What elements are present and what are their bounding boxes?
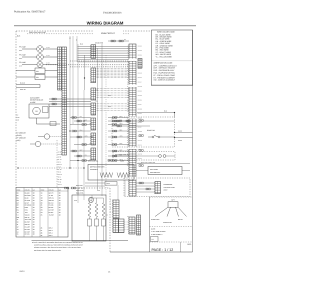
table divider 1 — [150, 226, 193, 228]
bottom connector strip S7 — [129, 217, 135, 234]
svg-text:ORN: ORN — [19, 58, 22, 60]
svg-text:GRY: GRY — [80, 149, 83, 151]
svg-text:41-40: 41-40 — [46, 55, 50, 57]
notes block — [32, 239, 129, 241]
svg-text:WH-16: WH-16 — [58, 174, 63, 176]
connector strip J2 seg2 — [91, 68, 96, 83]
svg-text:WH-14: WH-14 — [58, 184, 63, 186]
DB4 connector strip — [155, 182, 161, 194]
legend box wire color code — [152, 30, 193, 86]
svg-text:CMP: CMP — [17, 117, 20, 119]
water valve heater 3 — [102, 203, 105, 205]
connector strip J2 seg5 — [91, 118, 96, 130]
svg-text:BK-16: BK-16 — [58, 169, 62, 171]
water valve heater 2 — [95, 203, 98, 205]
svg-text:DSP WTR TUBE HTR: DSP WTR TUBE HTR — [141, 162, 155, 164]
connector strip J1 right column — [62, 47, 67, 155]
svg-text:GA: GA — [59, 189, 61, 191]
table divider 2 — [150, 241, 193, 243]
bottom connector block S6a — [113, 219, 119, 233]
svg-text:45-16: 45-16 — [58, 172, 62, 174]
icemaker wires — [49, 98, 91, 100]
svg-text:WHT: WHT — [19, 65, 22, 67]
svg-text:CN-35: CN-35 — [138, 122, 142, 124]
lamp B3 wires — [22, 64, 37, 66]
connector strip J2 seg6 — [91, 133, 96, 145]
svg-text:BRN: BRN — [120, 143, 123, 145]
svg-text:CN-21: CN-21 — [138, 90, 142, 92]
svg-text:CN-23: CN-23 — [138, 95, 142, 97]
svg-text:WIRE: WIRE — [17, 189, 21, 191]
connector strip J2 seg7 — [91, 148, 96, 160]
svg-text:CN-43: CN-43 — [138, 140, 142, 142]
svg-text:WIRE: WIRE — [41, 189, 45, 191]
svg-text:WIRE COLOR CODE: WIRE COLOR CODE — [157, 31, 175, 34]
ground wire dashed — [17, 167, 18, 168]
auger motor circle — [88, 197, 93, 202]
bottom connector block S6b — [119, 219, 125, 233]
svg-text:BLU: BLU — [95, 101, 98, 103]
cabinet dashed border top — [16, 30, 152, 32]
bottom dotted wires — [124, 221, 129, 223]
junction dots — [69, 130, 70, 131]
FZ sensor — [44, 134, 49, 139]
connector strip J2 seg1 — [91, 45, 96, 59]
svg-text:RED: RED — [80, 129, 83, 131]
svg-text:CN-51: CN-51 — [138, 158, 142, 160]
switch SW1 box — [35, 68, 45, 74]
heater bank box — [72, 195, 106, 241]
svg-text:FZ: FZ — [17, 115, 19, 117]
svg-text:CN-29: CN-29 — [138, 108, 142, 110]
compartment divider dashed — [56, 140, 58, 188]
svg-text:DUAL COIL: DUAL COIL — [76, 193, 84, 195]
svg-text:ABBREVIATION CODE: ABBREVIATION CODE — [154, 61, 174, 64]
svg-text:PWB CIRCUIT: PWB CIRCUIT — [101, 32, 115, 35]
bottom connector strip S8 — [137, 215, 141, 235]
svg-text:CN-33: CN-33 — [138, 117, 142, 119]
compressor pictorial box — [168, 202, 178, 207]
defrost lower wires — [85, 182, 105, 184]
cabinet dashed border bottom-left — [68, 187, 110, 189]
svg-text:ORN 120V 60HZ WHT: ORN 120V 60HZ WHT — [29, 31, 46, 34]
svg-text:VIO: VIO — [85, 154, 87, 156]
svg-text:CN-27: CN-27 — [138, 104, 142, 106]
table small box — [151, 237, 159, 242]
svg-text:M: M — [36, 110, 38, 113]
compressor pictorial lines — [155, 207, 168, 216]
FF sensor — [35, 141, 40, 146]
svg-text:WHT: WHT — [90, 123, 93, 125]
svg-text:CN-31: CN-31 — [138, 113, 142, 115]
svg-text:YEL: YEL — [80, 116, 83, 118]
DB1 wires and pairs — [112, 120, 175, 122]
svg-text:CN-37: CN-37 — [138, 126, 142, 128]
svg-text:SW - SWITCH ASSEMBLY: SW - SWITCH ASSEMBLY — [154, 79, 176, 82]
svg-text:REF:: REF: — [187, 243, 192, 246]
svg-text:CN-25: CN-25 — [138, 99, 142, 101]
lamp B2 wires — [22, 56, 37, 58]
water tube heater box DB3 — [148, 167, 182, 175]
door switch — [148, 136, 152, 138]
svg-text:CN-19: CN-19 — [138, 86, 142, 88]
svg-text:Publication No. 5995578917: Publication No. 5995578917 — [14, 10, 46, 13]
svg-text:CN-11: CN-11 — [138, 68, 142, 70]
svg-text:ORN: ORN — [19, 50, 22, 52]
svg-text:BK-08: BK-08 — [58, 179, 62, 181]
svg-text:COLOR: COLOR — [25, 189, 30, 191]
switch SW2 box — [35, 75, 45, 80]
svg-text:WTR: WTR — [74, 200, 77, 202]
door dashed box DB1 — [112, 117, 175, 147]
main board connector strip CN1 — [129, 44, 136, 196]
svg-text:GA: GA — [33, 189, 35, 191]
svg-text:46-12: 46-12 — [58, 177, 62, 179]
table left border — [149, 197, 151, 252]
heater bank feed wires — [77, 188, 79, 203]
svg-text:3-WAY VLV: 3-WAY VLV — [76, 188, 83, 190]
connector strip J2 seg4 — [91, 103, 96, 115]
svg-text:AIR: AIR — [17, 120, 19, 122]
wire stub B — [16, 87, 40, 89]
defrost heater element 2 — [117, 173, 119, 178]
svg-text:EW23BC85KS6A: EW23BC85KS6A — [103, 12, 122, 15]
svg-text:ORN: ORN — [85, 135, 88, 137]
svg-text:GRY: GRY — [120, 150, 123, 152]
DB1 wire right — [175, 132, 193, 134]
svg-text:43-12: 43-12 — [58, 162, 62, 164]
svg-text:CN-39: CN-39 — [138, 131, 142, 133]
svg-text:WH-08: WH-08 — [58, 154, 63, 156]
svg-text:CN-15: CN-15 — [138, 77, 142, 79]
defrost vertical wires — [117, 185, 119, 200]
connector strip J2 seg3 — [91, 88, 96, 100]
table top border — [150, 196, 193, 198]
svg-text:CN-01: CN-01 — [138, 45, 142, 47]
svg-text:BRN: BRN — [90, 143, 93, 145]
middle wires with inline connectors — [70, 117, 91, 119]
svg-text:BK: BK — [124, 39, 126, 41]
svg-text:09/10: 09/10 — [20, 270, 26, 273]
heater bank label — [65, 187, 67, 189]
svg-text:AUG: AUG — [97, 190, 100, 192]
svg-text:YL - YELLOW WIRE: YL - YELLOW WIRE — [156, 55, 173, 58]
heater dashed box DB2 — [113, 152, 175, 161]
icemaker motor M — [33, 107, 41, 115]
icemaker module box — [29, 104, 49, 118]
svg-text:CN-07: CN-07 — [138, 59, 142, 61]
PAGE cell divider — [180, 242, 182, 252]
DB4 wires — [136, 182, 155, 184]
svg-text:RED: RED — [95, 89, 98, 91]
svg-text:DSP WTR: DSP WTR — [76, 185, 83, 187]
top wire bundle — [78, 46, 130, 48]
svg-text:BK-12: BK-12 — [58, 159, 62, 161]
lamp B1 wires — [22, 48, 37, 50]
svg-text:42-08: 42-08 — [58, 157, 62, 159]
svg-text:44-16: 44-16 — [58, 167, 62, 169]
heater bank sub boxes — [88, 219, 92, 226]
heater bank top wires — [89, 198, 91, 203]
defrost heater element 1 — [100, 173, 102, 178]
svg-text:ORN: ORN — [120, 136, 123, 138]
icemaker aux box — [43, 107, 49, 113]
svg-text:CN-05: CN-05 — [138, 54, 142, 56]
wire legend table — [16, 188, 68, 238]
wire to door box — [137, 112, 175, 114]
DB1 junction dots — [174, 132, 175, 133]
diagram bottom border — [110, 251, 193, 253]
wire to water tube heater — [137, 163, 190, 165]
svg-text:COLOR: COLOR — [49, 189, 54, 191]
wire junction x84 — [84, 55, 86, 90]
dashed bus lines and dotted leader rows — [70, 60, 129, 62]
defrost heater box — [88, 165, 134, 181]
svg-text:WIRING DIAGRAM: WIRING DIAGRAM — [87, 20, 124, 25]
svg-text:PAGE : 1 / 12: PAGE : 1 / 12 — [152, 248, 174, 252]
svg-text:42-40: 42-40 — [46, 62, 50, 64]
label PWB CIRCUIT — [93, 31, 123, 35]
top pair row — [108, 40, 129, 42]
svg-text:CN-09: CN-09 — [138, 63, 142, 65]
svg-text:CN-13: CN-13 — [138, 72, 142, 74]
mid dotted leader rows — [96, 88, 129, 90]
svg-text:GRN: GRN — [108, 106, 111, 108]
svg-text:CN-49: CN-49 — [138, 153, 142, 155]
heater bank bottom wires — [89, 226, 91, 241]
svg-text:BLK: BLK — [120, 120, 123, 122]
water valve heater 1 — [88, 203, 91, 205]
wire stub A — [16, 84, 40, 86]
vertical bus wires — [77, 44, 79, 195]
svg-text:47-08: 47-08 — [58, 182, 62, 184]
svg-text:WHT: WHT — [120, 123, 123, 125]
dispenser dashed box DB4 — [124, 178, 190, 197]
dashed border vertical center-bottom — [109, 188, 111, 252]
bottom dashed wires left — [110, 199, 113, 201]
svg-text:CN-17: CN-17 — [138, 81, 142, 83]
svg-text:WH-12: WH-12 — [58, 164, 63, 166]
svg-text:RED: RED — [120, 130, 123, 132]
inner dashed line top — [27, 33, 129, 35]
svg-text:41-40: 41-40 — [46, 47, 50, 49]
connector strip J1 left column — [58, 47, 62, 90]
header rule — [14, 25, 196, 27]
svg-text:CN-03: CN-03 — [138, 50, 142, 52]
bottom connector strip S5 — [113, 200, 119, 219]
svg-text:ORN: ORN — [108, 95, 111, 97]
svg-text:ICE MAKER: ICE MAKER — [30, 96, 40, 99]
aux connector strip CN2 — [138, 59, 142, 69]
icemaker down wire — [36, 118, 38, 124]
vertical wires top — [69, 36, 71, 168]
svg-text:BLK: BLK — [85, 119, 88, 121]
svg-text:CN-45: CN-45 — [138, 144, 142, 146]
svg-text:41-08: 41-08 — [58, 152, 62, 154]
diagram right border — [192, 30, 194, 252]
cabinet dashed border left — [15, 31, 17, 188]
